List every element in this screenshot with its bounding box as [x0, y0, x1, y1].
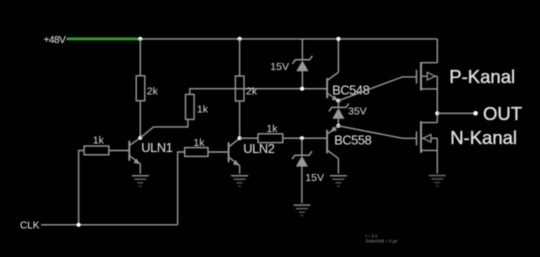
node BC548 base dot — [300, 87, 304, 91]
wire ULN1 collector to R2 bottom (diagonal + horizontal + vertical) — [140, 120, 188, 138]
wire BC548 emitter node to P-MOSFET gate — [338, 77, 416, 101]
wire BC548 emitter to zener D3 — [337, 101, 339, 108]
svg-text:BC548: BC548 — [332, 82, 369, 97]
resistor R3 1k (CLK to ULN1 base) — [84, 146, 109, 155]
wire +48V green supply segment — [67, 38, 141, 41]
svg-text:BC558: BC558 — [334, 132, 371, 147]
resistor R4 1k (CLK to ULN2 base) — [185, 148, 208, 157]
resistor R6 1k (horizontal, to BC558 base node) — [258, 134, 283, 143]
svg-text:35V: 35V — [348, 106, 367, 118]
ground (ULN1 emitter) — [132, 176, 149, 187]
wire R4 to ULN2 base — [208, 151, 229, 153]
transistor ULN1 (NPN) — [129, 138, 140, 174]
svg-text:OUT: OUT — [483, 103, 522, 124]
zener diode D3 35V — [329, 103, 349, 125]
MOSFET M2 N-Kanal — [417, 113, 438, 173]
wire R2 top to BC548 base node — [190, 89, 327, 95]
wire BC558 emitter node to N-MOSFET gate — [338, 126, 416, 139]
wire CLK node up to R4 — [178, 152, 185, 225]
svg-text:CLK: CLK — [20, 221, 40, 232]
ground (BC558 collector) — [330, 176, 347, 187]
zener diode D2 15V (lower) — [292, 151, 312, 203]
node OUT terminal dot — [473, 111, 478, 116]
svg-text:1k: 1k — [193, 137, 205, 149]
svg-text:1k: 1k — [266, 123, 278, 135]
ground (ULN2 emitter) — [231, 176, 248, 187]
svg-text:N-Kanal: N-Kanal — [450, 127, 517, 148]
transistor Q1 BC548 (NPN) — [327, 39, 338, 101]
transistor ULN2 (NPN) — [229, 138, 240, 174]
node rail/BC548 collector dot — [336, 37, 340, 41]
wire R1 bottom to ULN1 collector node — [139, 101, 141, 138]
node BC558 emitter dot — [336, 124, 340, 128]
ground (N-MOSFET source) — [429, 176, 446, 187]
zener diode D1 15V (upper) — [292, 56, 312, 89]
wire rail to R5 top — [239, 39, 241, 76]
wire CLK to CLK node — [41, 224, 178, 226]
svg-text:+48V: +48V — [44, 35, 67, 46]
wire rail down to zener D1 — [301, 39, 303, 60]
node BC548 emitter dot — [336, 99, 340, 103]
svg-text:1k: 1k — [93, 135, 105, 147]
wire R5 bottom to ULN2 collector node — [239, 101, 241, 138]
svg-text:2k: 2k — [147, 86, 159, 98]
wire rail to R1 top — [139, 39, 141, 76]
svg-text:ULN1: ULN1 — [141, 140, 172, 155]
wire R3 left down to CLK line — [79, 151, 85, 225]
node CLK junction dot — [77, 223, 81, 227]
svg-text:15V: 15V — [270, 61, 289, 73]
node rail/R5 junction dot — [238, 37, 242, 41]
wire +48V rail — [140, 38, 437, 40]
resistor R1 2k — [136, 76, 145, 101]
ground (zener D2) — [293, 205, 310, 216]
node ULN1 collector dot — [138, 136, 142, 140]
node OUT junction dot — [435, 111, 439, 115]
svg-text:P-Kanal: P-Kanal — [449, 66, 515, 87]
wire BC558 base node down to zener D2 — [301, 138, 303, 155]
wire ULN2 collector node to R6 — [240, 137, 258, 139]
svg-text:2k: 2k — [246, 86, 258, 98]
MOSFET M1 P-Kanal — [417, 39, 438, 113]
node ULN2 collector dot — [238, 136, 242, 140]
svg-text:15V: 15V — [305, 172, 324, 184]
transistor Q2 BC558 (PNP) — [327, 126, 338, 174]
wire R3 right to ULN1 base — [109, 150, 129, 152]
wire crossing R5 body (base drive wire) — [235, 88, 244, 90]
resistor R2 1k (middle) — [186, 94, 195, 119]
resistor R5 2k (right) — [235, 76, 244, 101]
svg-text:1k: 1k — [197, 103, 209, 115]
node rail/R1 junction dot — [138, 37, 142, 41]
node BC558 base dot — [300, 136, 304, 140]
wire R6 to BC558 base — [283, 137, 327, 139]
wire OUT — [437, 112, 475, 114]
svg-text:Zeitschritt = 5 µs: Zeitschritt = 5 µs — [366, 239, 398, 244]
